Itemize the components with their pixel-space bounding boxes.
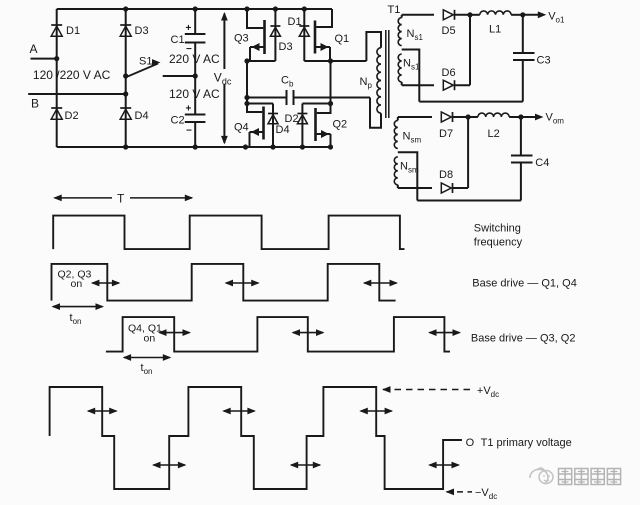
svg-text:T1 primary voltage: T1 primary voltage bbox=[481, 437, 572, 449]
wire D8 branch bbox=[398, 187, 468, 189]
wire top rail bbox=[57, 8, 332, 10]
wire sec2 bottom return bbox=[417, 200, 521, 202]
transition arrow 5 wf4 bbox=[361, 410, 392, 412]
wire second vertical bbox=[125, 9, 127, 147]
wire bottom rail bbox=[57, 146, 331, 148]
switch S1 bbox=[123, 73, 128, 78]
watermark text dianyuan lianmeng bbox=[559, 469, 621, 485]
diode D5 bbox=[454, 10, 456, 20]
overlap arrow 3 wf3 bbox=[430, 332, 460, 334]
overlap arrow 1 wf2 bbox=[92, 282, 119, 284]
transition arrow 6 wf4 bbox=[430, 464, 459, 466]
overlap arrow 1 wf3 bbox=[160, 332, 190, 334]
svg-text:C1: C1 bbox=[171, 34, 185, 46]
wire right mid vertical bbox=[330, 61, 332, 104]
wire rectifier vertical sec1 bbox=[469, 15, 471, 85]
svg-text:S1: S1 bbox=[139, 56, 152, 68]
wire capacitor string bbox=[194, 9, 196, 147]
diode D8 bbox=[452, 183, 454, 193]
overlap arrow 3 wf2 bbox=[364, 282, 396, 284]
wire Q1 emitter to transformer bbox=[304, 60, 366, 62]
waveform base drive Q1 Q4 bbox=[52, 264, 396, 301]
node top-left junction bbox=[244, 6, 249, 11]
capacitor C2 bbox=[185, 114, 206, 116]
transistor Q2 bbox=[317, 104, 331, 114]
capacitor C4 bbox=[520, 117, 522, 201]
wire Q3 emitter node bbox=[247, 60, 275, 62]
inductor L2 bbox=[468, 116, 478, 118]
svg-text:T: T bbox=[117, 192, 125, 206]
output Vo1 arrow bbox=[523, 14, 539, 16]
waveform base drive Q3 Q2 bbox=[106, 317, 450, 352]
transition arrow 2 wf4 bbox=[154, 464, 185, 466]
center tap secondary 2 bbox=[398, 152, 418, 200]
wire D7 branch bbox=[398, 116, 468, 118]
svg-text:on: on bbox=[144, 333, 156, 345]
diode D1 bbox=[51, 24, 62, 26]
ton arrow wf3 bbox=[124, 357, 170, 359]
svg-text:D5: D5 bbox=[442, 25, 456, 37]
svg-text:D2: D2 bbox=[65, 110, 79, 122]
svg-text:D3: D3 bbox=[135, 25, 149, 37]
overlap arrow 2 wf3 bbox=[293, 332, 323, 334]
transformer core bbox=[385, 30, 387, 118]
output Vom arrow bbox=[521, 116, 536, 118]
svg-text:D3: D3 bbox=[279, 41, 293, 53]
svg-text:ton: ton bbox=[70, 312, 82, 326]
junction dots bottom rail bbox=[243, 144, 248, 149]
ton arrow wf2 bbox=[53, 306, 103, 308]
svg-text:−Vdc: −Vdc bbox=[475, 487, 497, 501]
svg-text:B: B bbox=[31, 97, 39, 111]
svg-text:Ns1: Ns1 bbox=[403, 58, 420, 72]
svg-text:Vo1: Vo1 bbox=[548, 11, 565, 25]
transition arrow 1 wf4 bbox=[88, 410, 116, 412]
waveform switching frequency bbox=[53, 216, 404, 250]
svg-text:L1: L1 bbox=[489, 24, 501, 36]
+Vdc dashed level bbox=[383, 389, 473, 391]
diode D4 bridge bbox=[247, 104, 273, 148]
svg-text:120 V AC: 120 V AC bbox=[169, 87, 220, 101]
capacitor C3 bbox=[522, 15, 524, 102]
svg-text:L2: L2 bbox=[488, 128, 500, 140]
-Vdc dashed level bbox=[447, 491, 473, 493]
center tap secondary 1 bbox=[402, 50, 420, 102]
transistor Q1 bbox=[316, 9, 332, 27]
svg-text:D1: D1 bbox=[288, 16, 302, 28]
svg-text:D8: D8 bbox=[439, 169, 453, 181]
svg-text:D2: D2 bbox=[285, 113, 299, 125]
svg-text:Q1: Q1 bbox=[335, 33, 350, 45]
svg-text:O: O bbox=[466, 437, 475, 449]
wire D6 branch bbox=[402, 84, 470, 86]
diode D2 bbox=[51, 107, 62, 109]
svg-text:220 V AC: 220 V AC bbox=[169, 52, 220, 66]
svg-text:+: + bbox=[186, 104, 192, 115]
svg-text:Cb: Cb bbox=[281, 75, 294, 89]
diode D2 bridge bbox=[302, 104, 330, 148]
wire D5 branch bbox=[402, 14, 470, 16]
diode D4 bbox=[120, 107, 131, 109]
svg-text:Switching: Switching bbox=[474, 223, 521, 235]
diode D1 bridge bbox=[302, 6, 307, 11]
svg-text:Q4: Q4 bbox=[234, 122, 249, 134]
svg-text:T1: T1 bbox=[388, 4, 401, 16]
svg-text:Base drive — Q3, Q2: Base drive — Q3, Q2 bbox=[471, 333, 576, 345]
svg-text:120 /220 V AC: 120 /220 V AC bbox=[33, 68, 111, 82]
svg-text:+: + bbox=[186, 23, 192, 34]
waveform T1 primary voltage bbox=[50, 387, 462, 489]
svg-text:Q2: Q2 bbox=[333, 119, 348, 131]
svg-text:D7: D7 bbox=[439, 128, 453, 140]
transition arrow 3 wf4 bbox=[224, 410, 255, 412]
svg-text:C3: C3 bbox=[537, 55, 551, 67]
transistor Q3 bbox=[247, 9, 263, 28]
wire sec1 bottom return bbox=[419, 101, 523, 103]
svg-text:+Vdc: +Vdc bbox=[477, 385, 499, 399]
watermark logo bbox=[530, 468, 553, 484]
svg-text:D1: D1 bbox=[66, 25, 80, 37]
wire rectifier vertical sec2 bbox=[467, 117, 469, 188]
Vdc arrow bbox=[223, 14, 225, 144]
capacitor C1 bbox=[185, 33, 206, 35]
capacitor Cb bbox=[247, 97, 370, 99]
svg-text:Vom: Vom bbox=[546, 112, 565, 126]
svg-text:Q3: Q3 bbox=[234, 33, 249, 45]
diode D6 bbox=[454, 80, 456, 90]
svg-text:Vdc: Vdc bbox=[214, 71, 232, 87]
svg-text:D4: D4 bbox=[135, 110, 149, 122]
period T arrow bbox=[55, 197, 193, 199]
svg-text:Nsm: Nsm bbox=[403, 131, 422, 145]
inductor L1 bbox=[470, 14, 480, 16]
secondary Ns1 windings bbox=[401, 15, 403, 18]
svg-text:C4: C4 bbox=[535, 157, 549, 169]
secondary Nsm windings bbox=[397, 117, 399, 120]
wire left mid vertical bbox=[246, 61, 248, 104]
svg-text:C2: C2 bbox=[171, 115, 185, 127]
primary Np winding bbox=[366, 32, 381, 61]
svg-text:on: on bbox=[71, 278, 83, 290]
diode D7 bbox=[452, 112, 454, 122]
transition arrow 4 wf4 bbox=[291, 464, 320, 466]
svg-text:ton: ton bbox=[141, 362, 153, 376]
svg-text:Np: Np bbox=[360, 76, 373, 90]
svg-text:Nsm: Nsm bbox=[400, 161, 419, 175]
svg-text:Base drive — Q1, Q4: Base drive — Q1, Q4 bbox=[472, 278, 577, 290]
svg-text:A: A bbox=[30, 42, 38, 56]
diode D3 bbox=[120, 24, 131, 26]
transistor Q4 bbox=[247, 104, 262, 113]
svg-text:−: − bbox=[186, 126, 192, 137]
diode D3 bridge bbox=[273, 6, 278, 11]
svg-text:Ns1: Ns1 bbox=[407, 28, 424, 42]
svg-text:D4: D4 bbox=[276, 124, 290, 136]
overlap arrow 2 wf2 bbox=[226, 282, 258, 284]
svg-text:frequency: frequency bbox=[474, 237, 523, 249]
svg-text:D6: D6 bbox=[442, 67, 456, 79]
wire left vertical bbox=[56, 9, 58, 147]
